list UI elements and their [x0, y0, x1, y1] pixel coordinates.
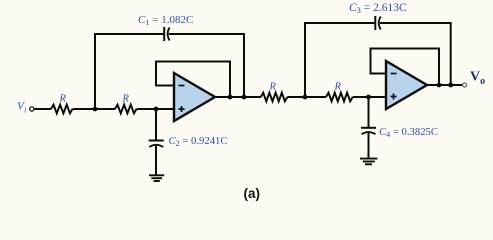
node Vi input terminal [30, 107, 34, 111]
node B junction dot [154, 107, 159, 112]
junction dot feedback U1 on output [228, 95, 233, 100]
op-amp U2 minus pin mark [391, 73, 397, 75]
wire R4 to op-amp U2 plus input through node D [353, 96, 387, 98]
wire capacitor C3 rail right leg [380, 23, 451, 85]
wire capacitor C3 branch left leg and rail [305, 23, 374, 97]
wire U2 output [426, 84, 462, 86]
op-amp U1 minus pin mark [179, 85, 185, 87]
resistor R3 [261, 93, 288, 102]
junction dot C3 leg on output [448, 83, 453, 88]
wire U1 output [214, 96, 261, 98]
wire R2 to op-amp U1 plus input through node B [137, 108, 176, 110]
node D junction dot [366, 95, 371, 100]
node Vo output terminal [463, 83, 467, 87]
node A junction dot [93, 107, 98, 112]
wire R1 to R2 through node A [73, 108, 116, 110]
svg-text:R: R [334, 82, 342, 93]
junction dot feedback U2 on output [437, 83, 442, 88]
op-amp U2 plus pin mark [391, 94, 397, 100]
wire node D down to capacitor C4 [368, 97, 370, 128]
resistor R4 [326, 93, 353, 102]
svg-text:C4 = 0.3825C: C4 = 0.3825C [379, 126, 438, 139]
capacitor C4 [361, 128, 376, 135]
resistor R2 [115, 105, 137, 114]
capacitor C3 [375, 16, 380, 30]
ground below C4 [360, 159, 378, 165]
junction dot C1 leg on output [242, 95, 247, 100]
svg-text:R: R [59, 94, 67, 105]
node C junction dot [303, 95, 308, 100]
wire R3 to R4 through node C [287, 96, 326, 98]
wire node B down to capacitor C2 [155, 109, 157, 140]
svg-text:Vo: Vo [470, 70, 485, 88]
wire feedback loop U2 output to minus input [371, 49, 440, 86]
svg-text:C2 = 0.9241C: C2 = 0.9241C [169, 135, 228, 148]
capacitor C2 [149, 141, 164, 148]
op-amp U1 plus pin mark [179, 106, 185, 112]
op-amp U2 [386, 61, 427, 109]
resistor R1 [51, 105, 73, 114]
svg-text:C1 = 1.082C: C1 = 1.082C [138, 14, 193, 27]
svg-text:(a): (a) [244, 186, 261, 201]
svg-text:C3 = 2.613C: C3 = 2.613C [349, 2, 407, 15]
wire capacitor C1 rail right leg [169, 34, 244, 97]
op-amp U1 [174, 73, 215, 121]
wire capacitor C2 to ground [155, 146, 157, 175]
capacitor C1 [164, 27, 169, 41]
svg-text:Vi: Vi [17, 100, 27, 114]
svg-text:R: R [122, 94, 130, 105]
wire input to R1 [34, 108, 51, 110]
wire feedback loop U1 output to minus input [156, 62, 230, 98]
wire capacitor C1 branch left leg and rail [95, 34, 163, 109]
wire capacitor C4 to ground [368, 133, 370, 158]
ground below C2 [149, 175, 164, 181]
svg-text:R: R [269, 82, 277, 93]
